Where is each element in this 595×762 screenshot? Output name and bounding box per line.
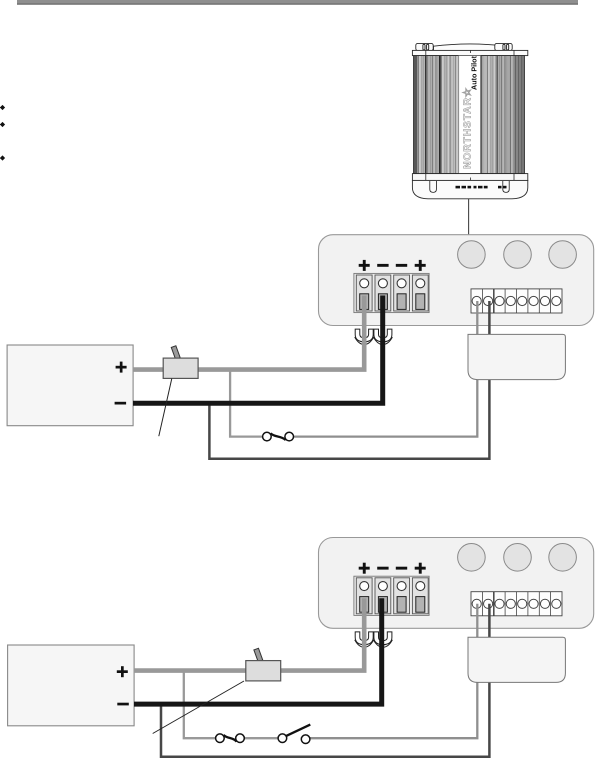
course computer 2 (319, 538, 594, 648)
drive bottom cap (412, 180, 527, 198)
drive label stripe (459, 56, 481, 174)
bottom cap hooks (430, 181, 437, 192)
drive finned body (414, 56, 525, 174)
wire: ground sense (dark) 2 (161, 604, 489, 757)
switch S2a (216, 734, 245, 743)
wire: power sense (gray) middle 2 (244, 737, 278, 739)
wire: power sense (gray) right 2 (310, 604, 477, 738)
breaker 2 (246, 648, 281, 681)
battery 2 (8, 645, 135, 726)
bottom connector dashes (456, 186, 507, 189)
drive cable (468, 199, 470, 235)
header rule (17, 0, 578, 3)
wire: ground sense (dark) 1 (209, 301, 489, 459)
switch S2b (278, 725, 310, 744)
wire: battery positive 1 (133, 296, 364, 370)
svg-text:NORTHSTAR☆: NORTHSTAR☆ (462, 87, 473, 169)
drive top-right tab (495, 43, 512, 50)
drive top flange (412, 50, 527, 55)
bullet 1 (0, 105, 5, 110)
wire: power sense (gray) right 1 (294, 301, 478, 437)
drive bottom flange (412, 174, 527, 181)
breaker 1 (163, 346, 198, 379)
callout line 1 (159, 379, 172, 437)
course computer 1 (319, 235, 594, 345)
battery 1 minus (115, 402, 127, 405)
battery 1 plus (116, 362, 127, 373)
callout line 2 (153, 681, 244, 734)
battery 1 (7, 345, 133, 426)
drive top cap arch (434, 44, 507, 51)
bullet 3 (0, 155, 5, 160)
wire: battery negative 1 (133, 296, 383, 404)
svg-text:Auto Pilot: Auto Pilot (469, 55, 478, 90)
switch S1 (263, 432, 294, 441)
drive top-left tab (416, 43, 433, 50)
wire: power sense (gray) left 1 (230, 370, 262, 437)
drive interface box 2 (468, 637, 565, 682)
wire: power sense (gray) left 2 (184, 672, 216, 739)
wire: battery negative 2 (134, 598, 382, 704)
bullet 2 (0, 122, 5, 127)
wire: battery positive 2 (134, 598, 364, 670)
battery 2 minus (117, 703, 129, 706)
tab slots (423, 44, 509, 50)
battery 2 plus (117, 666, 128, 677)
drive interface box 1 (468, 334, 565, 379)
